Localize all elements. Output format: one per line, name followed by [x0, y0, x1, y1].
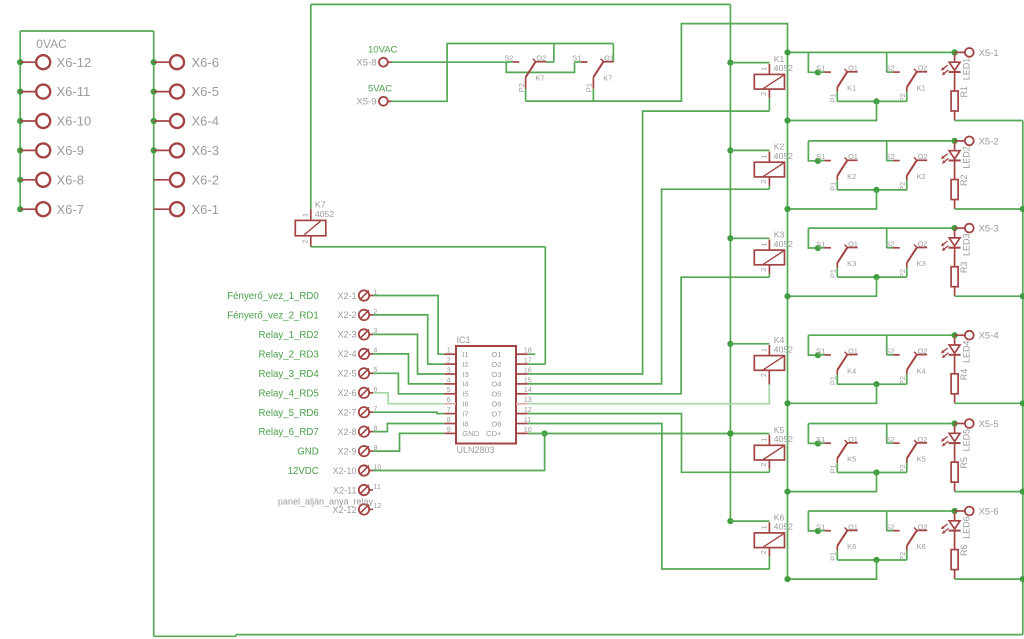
wire block6 top net	[808, 510, 954, 512]
pin X5-2	[955, 136, 999, 147]
svg-text:16: 16	[524, 365, 532, 374]
svg-text:P1: P1	[829, 93, 838, 102]
resistor R3	[951, 262, 969, 297]
junction right rail	[1020, 400, 1024, 406]
svg-text:LED5: LED5	[962, 429, 972, 452]
wire R3 to right rail	[955, 295, 1023, 297]
svg-text:K1: K1	[847, 84, 856, 93]
svg-text:X6-8: X6-8	[57, 172, 84, 187]
svg-text:12: 12	[373, 501, 381, 510]
LED LED5	[941, 425, 972, 462]
wire S1 feed K5	[808, 424, 818, 444]
svg-text:X2-9: X2-9	[337, 446, 356, 456]
junction 12V rail K2	[727, 147, 733, 153]
svg-text:S2: S2	[886, 522, 895, 531]
wire 12V to K1 pin1	[730, 62, 769, 64]
junction rail block4 bottom	[784, 400, 790, 406]
wire K7 P-net to switch rail	[526, 24, 788, 580]
wire P net drop block2	[788, 190, 877, 209]
svg-text:2: 2	[759, 268, 768, 272]
svg-text:R6: R6	[959, 545, 969, 557]
svg-text:X6-9: X6-9	[57, 143, 84, 158]
wire K2 pin2 stub	[768, 177, 770, 186]
svg-text:X5-1: X5-1	[979, 48, 999, 59]
pin 11 IC1	[516, 415, 531, 424]
svg-text:1: 1	[760, 243, 769, 247]
svg-text:I4: I4	[462, 380, 468, 389]
connector pin X6-6	[151, 55, 219, 70]
svg-text:K2: K2	[917, 172, 926, 181]
connector pin X6-12	[17, 55, 91, 70]
connector pin X2-5	[258, 365, 377, 380]
wire K1 pin2 stub	[768, 89, 770, 98]
wire O7 to K5	[528, 414, 770, 473]
svg-text:LED1: LED1	[962, 58, 972, 81]
switch K7 contact S1/O1/P1	[572, 54, 614, 102]
svg-text:K6: K6	[917, 542, 926, 551]
svg-text:1: 1	[760, 67, 769, 71]
pin 15 IC1	[516, 375, 532, 384]
wire 12V to K2 pin1	[730, 149, 769, 151]
svg-text:K4: K4	[847, 366, 856, 375]
wire block1 top net	[788, 51, 955, 53]
svg-text:K5: K5	[917, 455, 926, 464]
wire S2 feed K6	[886, 511, 888, 531]
junction P net K5	[873, 469, 879, 475]
wire X2-6 to I6	[373, 393, 444, 404]
connector pin X2-12	[332, 501, 381, 515]
svg-text:X2-1: X2-1	[337, 291, 356, 301]
svg-text:Relay_6_RD7: Relay_6_RD7	[258, 427, 318, 438]
pin 4 IC1	[444, 375, 456, 384]
junction rail block3 bottom	[784, 293, 790, 299]
svg-text:X6-2: X6-2	[192, 172, 219, 187]
svg-text:S1: S1	[816, 522, 825, 531]
svg-text:panel_alján_anya_relay: panel_alján_anya_relay	[278, 497, 374, 507]
pin 12 IC1	[516, 405, 532, 414]
svg-text:K6: K6	[847, 542, 856, 551]
wire S1 feed K3	[808, 228, 818, 248]
relay coil K5 4052	[754, 425, 793, 467]
svg-text:X6-4: X6-4	[192, 114, 219, 129]
svg-text:4052: 4052	[774, 151, 793, 161]
switch K2 contact S1/O1/P1	[815, 152, 858, 191]
wire 5VAC drop to K7 O1	[612, 44, 614, 63]
junction 12V rail K1	[727, 60, 733, 66]
svg-text:P1: P1	[829, 464, 838, 473]
wire 5VAC riser and top link	[392, 44, 614, 102]
svg-text:S2: S2	[886, 347, 895, 356]
svg-text:5: 5	[447, 385, 451, 394]
resistor R2	[951, 174, 969, 209]
svg-text:1: 1	[301, 213, 310, 217]
svg-text:1: 1	[760, 525, 769, 529]
junction X5-3	[952, 225, 958, 231]
svg-text:X2-6: X2-6	[337, 388, 356, 398]
switch K6 contact S1/O1/P1	[815, 522, 858, 561]
wire S2 feed K5	[886, 424, 888, 444]
svg-text:O2: O2	[918, 347, 928, 356]
wire CD+ 12V to rail	[528, 433, 770, 435]
junction X5-1	[952, 49, 958, 55]
svg-text:P1: P1	[829, 376, 838, 385]
svg-text:X5-5: X5-5	[979, 419, 999, 430]
junction right rail	[1020, 576, 1024, 582]
wire P net drop block1	[788, 101, 877, 120]
svg-text:X2-10: X2-10	[332, 466, 356, 476]
svg-text:1: 1	[760, 348, 769, 352]
wire K5 pin2 stub	[768, 460, 770, 469]
svg-text:LED4: LED4	[962, 341, 972, 364]
svg-text:O2: O2	[918, 522, 928, 531]
wire X2-9 to GND	[373, 433, 444, 451]
wire block4 top net	[808, 334, 954, 336]
svg-text:4052: 4052	[774, 522, 793, 532]
svg-text:I1: I1	[462, 350, 468, 359]
junction right rail	[1020, 206, 1024, 212]
svg-text:11: 11	[524, 415, 531, 424]
svg-text:X2-5: X2-5	[337, 369, 356, 379]
wire block3 top net	[808, 227, 954, 229]
svg-text:O4: O4	[491, 380, 501, 389]
switch K1 contact S1/O1/P1	[815, 64, 858, 103]
wire P net drop block5	[788, 473, 877, 492]
svg-text:LED6: LED6	[962, 516, 972, 539]
svg-text:R3: R3	[959, 262, 969, 274]
pin 3 IC1	[444, 365, 456, 374]
svg-text:S1: S1	[816, 239, 825, 248]
junction 12V rail K5	[727, 430, 733, 436]
svg-text:X2-11: X2-11	[333, 485, 356, 495]
connector pin X6-3	[151, 143, 219, 158]
svg-text:O1: O1	[491, 350, 501, 359]
connector pin X2-11	[333, 482, 381, 496]
junction P net K3	[873, 274, 879, 280]
svg-text:S1: S1	[816, 152, 825, 161]
connector pin X2-10	[288, 462, 382, 477]
svg-text:O2: O2	[536, 54, 546, 63]
svg-text:I8: I8	[462, 419, 468, 428]
junction right rail	[1020, 489, 1024, 495]
junction rail block6 bottom	[784, 576, 790, 582]
svg-text:O2: O2	[918, 239, 928, 248]
svg-text:X5-8: X5-8	[356, 57, 376, 68]
svg-text:X5-2: X5-2	[979, 136, 999, 147]
svg-text:2: 2	[759, 550, 768, 554]
junction X5-5	[952, 420, 958, 426]
relay coil K1 4052	[754, 54, 793, 96]
svg-text:X5-9: X5-9	[356, 96, 376, 107]
wire O3 to K1	[528, 111, 770, 374]
svg-text:I7: I7	[462, 409, 468, 418]
pin 6 IC1	[444, 395, 456, 404]
svg-text:1: 1	[760, 438, 769, 442]
wire S2-S1 link	[506, 62, 574, 72]
pin 7 IC1	[444, 405, 456, 414]
svg-text:8: 8	[447, 415, 451, 424]
wire net outer-top	[311, 3, 731, 5]
svg-text:4052: 4052	[774, 344, 793, 354]
svg-text:2: 2	[301, 240, 310, 244]
pin X5-8 (10VAC)	[356, 44, 397, 68]
wire K7 coil to O2	[311, 246, 546, 248]
connector pin X2-4	[258, 346, 377, 361]
pin 13 IC1	[516, 395, 532, 404]
svg-text:4052: 4052	[774, 239, 793, 249]
wire O2 to K7 riser	[528, 363, 546, 365]
wire block2 top net	[808, 140, 954, 142]
connector pin X6-2	[154, 172, 219, 187]
wire P1-P2 link K5	[837, 472, 907, 474]
connector pin X2-9	[297, 443, 377, 458]
wire P1-P2 link K3	[837, 276, 907, 278]
wire P net drop block6	[788, 560, 877, 579]
svg-text:Fényerő_vez_1_RD0: Fényerő_vez_1_RD0	[227, 291, 319, 302]
pin 17 IC1	[516, 356, 532, 365]
wire S2 feed K1	[886, 52, 888, 72]
pin 1 IC1	[444, 346, 456, 355]
svg-text:P1: P1	[829, 269, 838, 278]
wire O5 to K3	[528, 277, 770, 394]
resistor R1	[951, 86, 969, 121]
IC IC1 ULN2803	[456, 335, 516, 455]
svg-text:O1: O1	[848, 522, 858, 531]
junction X5-2	[952, 138, 958, 144]
pin X5-3	[955, 224, 999, 235]
svg-text:9: 9	[447, 425, 451, 434]
wire outer-left	[310, 4, 312, 209]
wire P net drop block4	[788, 384, 877, 403]
pin 14 IC1	[516, 385, 532, 394]
wire 12V to K4 pin1	[730, 343, 769, 345]
svg-text:O6: O6	[491, 400, 501, 409]
wire S2 feed K4	[886, 335, 888, 355]
svg-text:O5: O5	[491, 390, 501, 399]
svg-text:11: 11	[373, 482, 380, 491]
svg-text:O1: O1	[848, 435, 858, 444]
svg-text:S1: S1	[816, 64, 825, 73]
svg-text:K5: K5	[847, 455, 856, 464]
svg-text:Relay_1_RD2: Relay_1_RD2	[258, 330, 318, 341]
svg-text:X6-11: X6-11	[57, 84, 91, 99]
svg-text:GND: GND	[462, 429, 479, 438]
svg-text:14: 14	[524, 385, 532, 394]
junction 12VDC	[542, 430, 548, 436]
svg-text:4052: 4052	[774, 63, 793, 73]
svg-text:I3: I3	[462, 370, 468, 379]
wire K3 pin2 stub	[768, 265, 770, 274]
svg-text:X6-1: X6-1	[192, 202, 219, 217]
svg-text:K4: K4	[917, 366, 926, 375]
wire X2-4 to I4	[373, 354, 444, 384]
svg-text:X2-4: X2-4	[337, 349, 356, 359]
wire 10VAC to S2	[392, 61, 507, 63]
junction P net K4	[873, 381, 879, 387]
connector pin X2-8	[258, 423, 377, 438]
pin X5-5	[955, 419, 999, 430]
connector pin X6-1	[154, 202, 219, 217]
svg-text:I2: I2	[462, 360, 468, 369]
resistor R4	[951, 369, 969, 404]
svg-text:1: 1	[447, 346, 451, 355]
wire right return rail	[1022, 121, 1024, 635]
wire 12V to K3 pin1	[730, 237, 769, 239]
svg-text:17: 17	[524, 356, 532, 365]
wire S2 feed K2	[886, 141, 888, 161]
connector pin X6-11	[17, 84, 90, 99]
svg-text:13: 13	[524, 395, 532, 404]
wire X2-2 to I2	[373, 315, 444, 364]
svg-text:X2-2: X2-2	[337, 310, 356, 320]
switch K4 contact S1/O1/P1	[815, 347, 858, 386]
wire P1-P2 link K4	[837, 383, 907, 385]
svg-text:X6-10: X6-10	[57, 114, 92, 129]
wire 0VAC rail right / down to bottom	[153, 31, 155, 636]
svg-text:O1: O1	[848, 239, 858, 248]
pin 8 IC1	[444, 415, 456, 424]
svg-text:0VAC: 0VAC	[36, 37, 67, 51]
svg-text:K2: K2	[847, 172, 856, 181]
svg-text:X2-7: X2-7	[337, 408, 356, 418]
junction rail block1 top	[784, 49, 790, 55]
relay coil K2 4052	[754, 142, 793, 184]
wire K4 pin2 stub	[768, 370, 770, 384]
pin 2 IC1	[444, 356, 456, 365]
wire R6 to right rail	[955, 578, 1023, 580]
svg-text:2: 2	[759, 463, 768, 467]
resistor R5	[951, 457, 969, 492]
wire S1 feed K1	[808, 52, 818, 72]
svg-text:12VDC: 12VDC	[288, 466, 319, 477]
resistor R6	[951, 545, 969, 580]
relay coil K4 4052	[754, 335, 793, 377]
svg-text:O2: O2	[918, 152, 928, 161]
svg-text:X2-8: X2-8	[337, 427, 356, 437]
wire S2 feed K3	[886, 228, 888, 248]
svg-text:O1: O1	[848, 64, 858, 73]
pin X5-4	[955, 331, 999, 342]
svg-text:S2: S2	[886, 435, 895, 444]
wire X2-8 to I8	[373, 424, 444, 432]
switch K5 contact S1/O1/P1	[815, 435, 858, 474]
svg-text:ULN2803: ULN2803	[457, 445, 495, 455]
pin 10 IC1	[516, 425, 532, 434]
switch K3 contact S1/O1/P1	[815, 239, 858, 278]
pin 9 IC1	[444, 425, 456, 434]
svg-text:O7: O7	[491, 409, 501, 418]
wire 12V rail (relay coils)	[729, 4, 731, 521]
svg-text:15: 15	[524, 375, 532, 384]
svg-text:X5-3: X5-3	[979, 224, 999, 235]
svg-text:O8: O8	[491, 419, 501, 428]
svg-text:S1: S1	[572, 54, 581, 63]
svg-text:I5: I5	[462, 390, 468, 399]
LED LED3	[941, 230, 972, 267]
wire R2 to right rail	[955, 208, 1023, 210]
svg-text:X6-3: X6-3	[192, 143, 219, 158]
wire X2-5 to I5	[373, 373, 444, 394]
svg-text:O2: O2	[918, 64, 928, 73]
svg-text:2: 2	[447, 356, 451, 365]
svg-text:P2: P2	[517, 83, 526, 92]
relay coil K6 4052	[754, 512, 793, 554]
junction right rail	[1020, 293, 1024, 299]
svg-text:3: 3	[447, 365, 451, 374]
svg-text:X6-6: X6-6	[192, 55, 219, 70]
wire O8 to K6	[528, 424, 770, 570]
svg-text:12: 12	[524, 405, 532, 414]
wire P net drop block3	[788, 277, 877, 296]
svg-text:Relay_5_RD6: Relay_5_RD6	[258, 408, 318, 419]
svg-text:X2-3: X2-3	[337, 330, 356, 340]
svg-text:S1: S1	[816, 435, 825, 444]
wire X2-10 12VDC	[373, 434, 545, 471]
svg-text:10VAC: 10VAC	[368, 44, 398, 55]
svg-text:O2: O2	[918, 435, 928, 444]
svg-text:5VAC: 5VAC	[368, 83, 392, 94]
svg-text:S2: S2	[886, 239, 895, 248]
wire 5VAC drop to K7 O2	[553, 44, 555, 63]
svg-text:X6-12: X6-12	[57, 55, 92, 70]
svg-text:S2: S2	[504, 54, 513, 63]
svg-text:4: 4	[447, 375, 451, 384]
svg-text:K3: K3	[917, 259, 926, 268]
pin X5-6	[955, 507, 999, 518]
svg-text:S2: S2	[886, 64, 895, 73]
wire X2-7 to I7	[373, 412, 444, 413]
svg-text:IC1: IC1	[457, 335, 471, 345]
LED LED4	[941, 337, 972, 374]
svg-text:X6-7: X6-7	[57, 202, 84, 217]
pin 16 IC1	[516, 365, 532, 374]
wire P1-P2 link K6	[837, 559, 907, 561]
switch K1 contact S2/O2/P2	[886, 64, 928, 103]
svg-text:O2: O2	[491, 360, 501, 369]
svg-text:Fényerő_vez_2_RD1: Fényerő_vez_2_RD1	[227, 311, 319, 322]
svg-text:O3: O3	[491, 370, 501, 379]
junction P net K1	[873, 98, 879, 104]
connector pin X6-9	[17, 143, 84, 158]
connector pin X2-6	[258, 385, 377, 400]
svg-text:P1: P1	[585, 83, 594, 92]
pin X5-9 (5VAC)	[356, 83, 392, 107]
connector pin X6-8	[17, 172, 84, 187]
pin X5-1	[955, 48, 999, 59]
junction P net K2	[873, 187, 879, 193]
svg-text:S2: S2	[886, 152, 895, 161]
wire S1 feed K6	[808, 511, 818, 531]
svg-text:K7: K7	[535, 73, 544, 82]
junction rail block2 bottom	[784, 206, 790, 212]
junction rail block5 bottom	[784, 489, 790, 495]
junction 12V rail CD+	[727, 430, 733, 436]
wire 0VAC rail left	[20, 30, 154, 32]
wire K6 pin2 stub	[768, 548, 770, 557]
svg-text:10: 10	[524, 425, 532, 434]
wire R1 to right rail	[955, 120, 1023, 122]
svg-text:Relay_2_RD3: Relay_2_RD3	[258, 350, 318, 361]
pin 18 IC1	[516, 346, 535, 355]
svg-text:2: 2	[759, 180, 768, 184]
LED LED1	[941, 54, 972, 91]
switch K3 contact S2/O2/P2	[886, 239, 928, 278]
junction rail block1 bottom	[784, 117, 790, 123]
svg-text:S1: S1	[816, 347, 825, 356]
svg-text:O1: O1	[604, 54, 614, 63]
wire R5 to right rail	[955, 491, 1023, 493]
wire X2-3 to I3	[373, 334, 444, 374]
svg-text:P1: P1	[829, 552, 838, 561]
